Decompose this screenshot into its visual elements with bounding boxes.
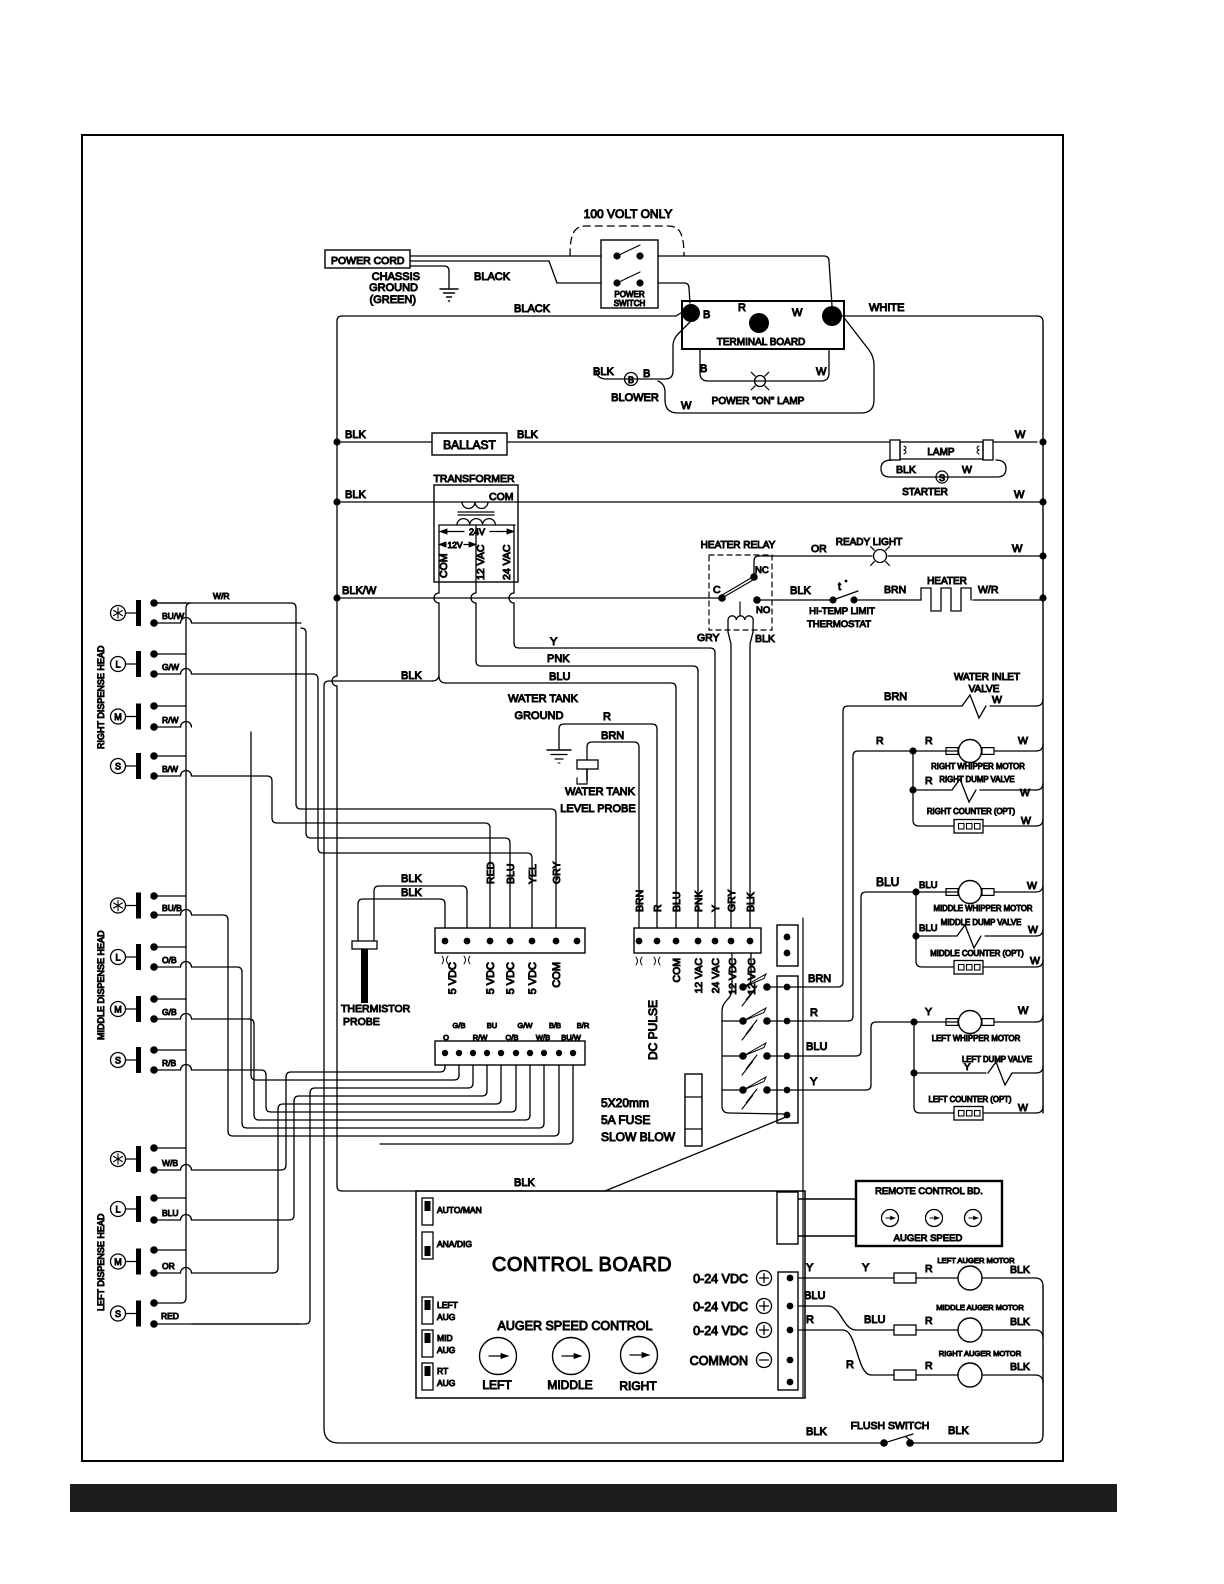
svg-text:W: W: [1027, 880, 1037, 892]
svg-text:(GREEN): (GREEN): [370, 294, 416, 306]
svg-text:BLU: BLU: [505, 864, 517, 884]
svg-text:STARTER: STARTER: [902, 487, 948, 498]
svg-text:AUG: AUG: [437, 1378, 455, 1388]
svg-text:S: S: [115, 761, 121, 771]
svg-text:12V: 12V: [447, 540, 462, 550]
svg-text:MIDDLE DUMP VALVE: MIDDLE DUMP VALVE: [941, 918, 1022, 927]
svg-text:BLK: BLK: [1010, 1361, 1030, 1373]
svg-text:OR: OR: [162, 1261, 175, 1271]
svg-text:Y: Y: [710, 905, 722, 912]
svg-text:S: S: [115, 1055, 121, 1065]
svg-text:COM: COM: [489, 491, 514, 503]
svg-text:M: M: [114, 1004, 122, 1014]
svg-text:0-24 VDC: 0-24 VDC: [693, 1324, 748, 1338]
svg-text:R: R: [738, 302, 746, 314]
svg-text:BRN: BRN: [884, 691, 907, 703]
svg-text:BU/B: BU/B: [162, 903, 182, 913]
svg-text:TRANSFORMER: TRANSFORMER: [433, 473, 515, 485]
svg-text:RIGHT: RIGHT: [619, 1379, 657, 1393]
svg-text:HI-TEMP LIMIT: HI-TEMP LIMIT: [809, 606, 875, 617]
svg-text:L: L: [115, 1204, 120, 1214]
svg-text:R: R: [925, 1360, 933, 1372]
svg-text:BLK: BLK: [896, 464, 916, 476]
svg-text:R: R: [925, 1315, 933, 1327]
svg-text:GRY: GRY: [551, 861, 563, 884]
svg-text:BRN: BRN: [884, 584, 906, 596]
svg-text:PROBE: PROBE: [343, 1016, 380, 1028]
svg-text:5 VDC: 5 VDC: [505, 962, 517, 994]
svg-text:R: R: [806, 1314, 814, 1326]
svg-text:Y: Y: [806, 1262, 814, 1274]
svg-text:5 VDC: 5 VDC: [447, 962, 459, 994]
svg-text:B/B: B/B: [549, 1021, 561, 1030]
svg-text:100 VOLT ONLY: 100 VOLT ONLY: [584, 207, 673, 221]
svg-text:B/W: B/W: [162, 764, 178, 774]
svg-text:5 VDC: 5 VDC: [527, 962, 539, 994]
svg-text:BLK: BLK: [806, 1426, 827, 1438]
svg-text:R: R: [603, 711, 611, 723]
svg-text:W/B: W/B: [536, 1033, 550, 1042]
svg-text:R: R: [810, 1007, 818, 1019]
svg-text:AUG: AUG: [437, 1312, 455, 1322]
svg-text:BLK: BLK: [755, 633, 775, 645]
svg-text:R: R: [925, 775, 933, 787]
svg-text:BLK: BLK: [401, 873, 422, 885]
svg-text:BU/W: BU/W: [162, 611, 184, 621]
svg-text:SLOW BLOW: SLOW BLOW: [601, 1130, 676, 1144]
svg-text:BLACK: BLACK: [474, 271, 511, 283]
svg-text:L: L: [115, 659, 120, 669]
svg-text:12 VDC: 12 VDC: [727, 958, 739, 995]
svg-text:G/W: G/W: [518, 1021, 534, 1030]
svg-text:BLU: BLU: [876, 875, 899, 889]
svg-text:R: R: [846, 1359, 854, 1371]
svg-text:NC: NC: [755, 565, 769, 576]
svg-text:FLUSH SWITCH: FLUSH SWITCH: [851, 1420, 930, 1432]
svg-text:0-24 VDC: 0-24 VDC: [693, 1272, 748, 1286]
svg-text:24 VAC: 24 VAC: [501, 544, 513, 580]
svg-text:WHITE: WHITE: [869, 302, 904, 314]
svg-text:BLACK: BLACK: [514, 303, 551, 315]
svg-text:BLK: BLK: [401, 670, 422, 682]
svg-text:AUGER SPEED: AUGER SPEED: [894, 1233, 963, 1244]
svg-text:BLU: BLU: [804, 1290, 825, 1302]
svg-text:RIGHT DISPENSE HEAD: RIGHT DISPENSE HEAD: [96, 645, 106, 749]
svg-text:COM: COM: [671, 958, 683, 983]
svg-text:POWER "ON" LAMP: POWER "ON" LAMP: [712, 396, 805, 407]
svg-text:DC PULSE: DC PULSE: [646, 1000, 660, 1060]
svg-text:W: W: [1015, 429, 1026, 441]
svg-text:t: t: [838, 581, 841, 593]
svg-text:AUGER SPEED CONTROL: AUGER SPEED CONTROL: [498, 1319, 653, 1333]
svg-text:LEFT: LEFT: [437, 1300, 458, 1310]
svg-text:Y: Y: [925, 1006, 932, 1018]
svg-text:GRY: GRY: [697, 632, 720, 644]
svg-text:BLU: BLU: [919, 923, 938, 934]
svg-text:12 VDC: 12 VDC: [746, 958, 758, 995]
svg-text:W: W: [1020, 787, 1030, 799]
svg-text:W: W: [816, 366, 827, 378]
svg-text:B/R: B/R: [577, 1021, 590, 1030]
svg-text:CONTROL BOARD: CONTROL BOARD: [492, 1254, 672, 1276]
svg-text:LAMP: LAMP: [927, 447, 955, 458]
svg-text:W: W: [681, 400, 692, 412]
svg-text:BLK: BLK: [593, 366, 614, 378]
svg-text:W: W: [992, 694, 1002, 706]
svg-text:WATER TANK: WATER TANK: [565, 786, 636, 798]
svg-text:W: W: [1018, 1005, 1029, 1017]
svg-text:G/B: G/B: [453, 1021, 466, 1030]
svg-text:BU: BU: [487, 1021, 497, 1030]
svg-text:REMOTE CONTROL BD.: REMOTE CONTROL BD.: [875, 1186, 983, 1197]
svg-text:YEL: YEL: [527, 864, 539, 884]
svg-text:LEVEL PROBE: LEVEL PROBE: [560, 803, 635, 815]
svg-text:BLK: BLK: [948, 1425, 969, 1437]
svg-text:BLU: BLU: [864, 1314, 885, 1326]
svg-text:B: B: [643, 368, 650, 380]
svg-text:B: B: [628, 375, 634, 385]
svg-text:HEATER RELAY: HEATER RELAY: [701, 540, 776, 551]
svg-text:O: O: [443, 1033, 449, 1042]
svg-text:24 VAC: 24 VAC: [710, 958, 722, 994]
svg-text:Y: Y: [550, 636, 558, 648]
svg-text:RED: RED: [485, 861, 497, 884]
svg-text:NO: NO: [756, 605, 770, 616]
svg-text:W: W: [962, 464, 972, 476]
svg-text:W: W: [1021, 815, 1031, 827]
svg-text:SWITCH: SWITCH: [614, 299, 646, 308]
svg-text:COM: COM: [551, 962, 563, 988]
svg-text:MIDDLE WHIPPER MOTOR: MIDDLE WHIPPER MOTOR: [933, 904, 1032, 913]
svg-text:12 VAC: 12 VAC: [693, 958, 705, 994]
svg-text:BRN: BRN: [634, 890, 646, 912]
svg-text:BLK: BLK: [345, 429, 366, 441]
svg-text:LEFT DUMP VALVE: LEFT DUMP VALVE: [962, 1055, 1032, 1064]
svg-text:S: S: [115, 1309, 121, 1319]
svg-text:W: W: [1018, 735, 1028, 747]
svg-text:BLK: BLK: [745, 892, 757, 912]
svg-text:L: L: [115, 952, 120, 962]
svg-text:BLOWER: BLOWER: [611, 392, 659, 404]
svg-text:M: M: [114, 1257, 122, 1267]
svg-text:BLK: BLK: [514, 1177, 535, 1189]
svg-text:B: B: [700, 363, 707, 375]
svg-text:POWER: POWER: [614, 290, 644, 299]
svg-text:LEFT COUNTER (OPT): LEFT COUNTER (OPT): [928, 1095, 1011, 1104]
svg-text:5X20mm: 5X20mm: [601, 1096, 649, 1110]
svg-text:BLU: BLU: [162, 1208, 179, 1218]
svg-text:W: W: [1018, 1102, 1028, 1114]
svg-text:BLK: BLK: [1010, 1264, 1030, 1276]
svg-text:B: B: [703, 309, 710, 321]
svg-text:W: W: [792, 307, 803, 319]
svg-text:W/B: W/B: [162, 1158, 178, 1168]
svg-text:W: W: [1014, 489, 1025, 501]
svg-text:RED: RED: [161, 1311, 179, 1321]
svg-text:O/B: O/B: [506, 1033, 519, 1042]
svg-text:G/W: G/W: [162, 662, 179, 672]
svg-text:PNK: PNK: [547, 653, 570, 665]
svg-text:LEFT AUGER MOTOR: LEFT AUGER MOTOR: [937, 1256, 1015, 1265]
svg-text:BLK: BLK: [517, 429, 538, 441]
svg-text:R: R: [925, 735, 933, 747]
svg-text:BLK: BLK: [1010, 1316, 1030, 1328]
svg-text:S: S: [939, 473, 945, 483]
svg-text:BLU: BLU: [671, 892, 683, 912]
svg-text:MIDDLE: MIDDLE: [547, 1378, 592, 1392]
svg-text:COM: COM: [438, 554, 450, 579]
svg-text:RIGHT DUMP VALVE: RIGHT DUMP VALVE: [939, 775, 1014, 784]
svg-text:BRN: BRN: [808, 973, 831, 985]
svg-text:M: M: [114, 712, 122, 722]
svg-text:GROUND: GROUND: [369, 282, 418, 294]
svg-text:MID: MID: [437, 1333, 453, 1343]
svg-text:G/B: G/B: [162, 1007, 177, 1017]
svg-text:HEATER: HEATER: [927, 576, 967, 587]
svg-text:WATER INLET: WATER INLET: [954, 672, 1020, 683]
svg-text:RIGHT WHIPPER MOTOR: RIGHT WHIPPER MOTOR: [931, 762, 1025, 771]
svg-text:R/B: R/B: [162, 1058, 177, 1068]
svg-text:BLU: BLU: [919, 880, 938, 891]
svg-text:RT: RT: [437, 1366, 448, 1376]
svg-text:0-24 VDC: 0-24 VDC: [693, 1300, 748, 1314]
svg-text:R: R: [925, 1263, 933, 1275]
svg-text:R/W: R/W: [162, 715, 179, 725]
svg-text:C: C: [713, 584, 721, 596]
svg-text:COMMON: COMMON: [690, 1354, 748, 1368]
svg-text:MIDDLE DISPENSE HEAD: MIDDLE DISPENSE HEAD: [96, 930, 106, 1040]
svg-text:AUG: AUG: [437, 1345, 455, 1355]
svg-text:PNK: PNK: [693, 890, 705, 912]
svg-text:BU/W: BU/W: [561, 1033, 582, 1042]
svg-text:LEFT: LEFT: [482, 1378, 512, 1392]
svg-text:O/B: O/B: [162, 955, 177, 965]
svg-text:5 VDC: 5 VDC: [485, 962, 497, 994]
svg-text:AUTO/MAN: AUTO/MAN: [437, 1205, 482, 1215]
svg-text:5A FUSE: 5A FUSE: [601, 1113, 650, 1127]
svg-text:RIGHT AUGER MOTOR: RIGHT AUGER MOTOR: [939, 1349, 1022, 1358]
svg-text:BLK: BLK: [401, 887, 422, 899]
svg-text:BLU: BLU: [549, 671, 570, 683]
svg-text:GROUND: GROUND: [515, 710, 564, 722]
svg-text:R/W: R/W: [473, 1033, 489, 1042]
svg-text:12 VAC: 12 VAC: [475, 544, 487, 580]
svg-text:R: R: [652, 904, 664, 912]
svg-text:MIDDLE COUNTER (OPT): MIDDLE COUNTER (OPT): [930, 949, 1024, 958]
svg-text:ANA/DIG: ANA/DIG: [437, 1239, 472, 1249]
svg-text:BALLAST: BALLAST: [443, 438, 496, 452]
svg-text:BRN: BRN: [601, 730, 624, 742]
svg-text:MIDDLE AUGER MOTOR: MIDDLE AUGER MOTOR: [936, 1303, 1024, 1312]
svg-text:LEFT DISPENSE HEAD: LEFT DISPENSE HEAD: [96, 1213, 106, 1311]
svg-text:BLK: BLK: [790, 585, 811, 597]
svg-text:W: W: [1030, 955, 1040, 967]
svg-text:GRY: GRY: [726, 889, 738, 912]
svg-text:READY LIGHT: READY LIGHT: [836, 537, 903, 548]
svg-text:RIGHT COUNTER (OPT): RIGHT COUNTER (OPT): [927, 807, 1016, 816]
svg-text:W: W: [1028, 924, 1038, 936]
svg-text:TERMINAL BOARD: TERMINAL BOARD: [717, 337, 806, 348]
svg-text:Y: Y: [810, 1076, 818, 1088]
svg-text:R: R: [876, 735, 884, 747]
svg-text:BLK: BLK: [345, 489, 366, 501]
svg-text:WATER TANK: WATER TANK: [508, 693, 579, 705]
svg-text:BLU: BLU: [806, 1041, 827, 1053]
svg-text:Y: Y: [862, 1262, 870, 1274]
svg-text:BLK/W: BLK/W: [342, 585, 377, 597]
svg-text:THERMOSTAT: THERMOSTAT: [807, 619, 871, 630]
svg-text:W: W: [1012, 543, 1023, 555]
svg-text:24V: 24V: [469, 527, 485, 537]
svg-text:OR: OR: [811, 543, 827, 555]
svg-text:W/R: W/R: [978, 584, 999, 596]
svg-text:LEFT WHIPPER MOTOR: LEFT WHIPPER MOTOR: [932, 1034, 1021, 1043]
svg-text:POWER CORD: POWER CORD: [331, 255, 405, 267]
svg-text:THERMISTOR: THERMISTOR: [341, 1003, 411, 1015]
svg-text:W/R: W/R: [213, 591, 230, 601]
